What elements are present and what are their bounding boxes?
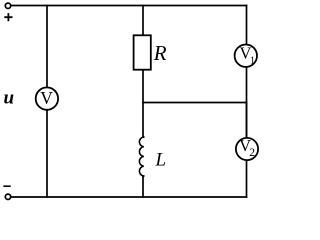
terminal (top-left, +): [5, 3, 10, 8]
wire top: [11, 5, 246, 7]
minus sign: [3, 185, 10, 187]
svg-text:R: R: [153, 41, 167, 65]
svg-text:1: 1: [250, 55, 255, 66]
inductor L: [139, 136, 143, 177]
voltmeter V2: [236, 136, 258, 160]
wire left branch lower (voltmeter V to bottom): [46, 110, 48, 197]
wire middle branch upper (top to resistor R): [142, 6, 144, 36]
wire right branch (middle node to voltmeter V2): [246, 103, 248, 139]
wire left branch upper (source to voltmeter V): [46, 6, 48, 88]
svg-text:u: u: [4, 88, 15, 109]
voltmeter V1: [235, 44, 257, 67]
wire right branch (voltmeter V1 to middle node): [246, 67, 248, 138]
terminal (bottom-left, −): [5, 194, 10, 199]
wire middle branch (resistor R to inductor L, through node): [142, 70, 144, 137]
svg-text:V: V: [40, 88, 53, 108]
svg-text:L: L: [155, 150, 167, 171]
wire right branch lower (voltmeter V2 to bottom): [246, 160, 248, 197]
svg-text:2: 2: [249, 147, 255, 159]
resistor R: [134, 35, 151, 69]
wire bottom: [11, 196, 246, 198]
voltmeter V: [36, 87, 58, 109]
plus sign: [4, 13, 12, 21]
wire middle horizontal (node between R and L to right branch): [143, 102, 247, 104]
wire right branch (top to voltmeter V1): [246, 6, 248, 45]
wire middle branch lower (inductor L to bottom): [142, 176, 144, 197]
